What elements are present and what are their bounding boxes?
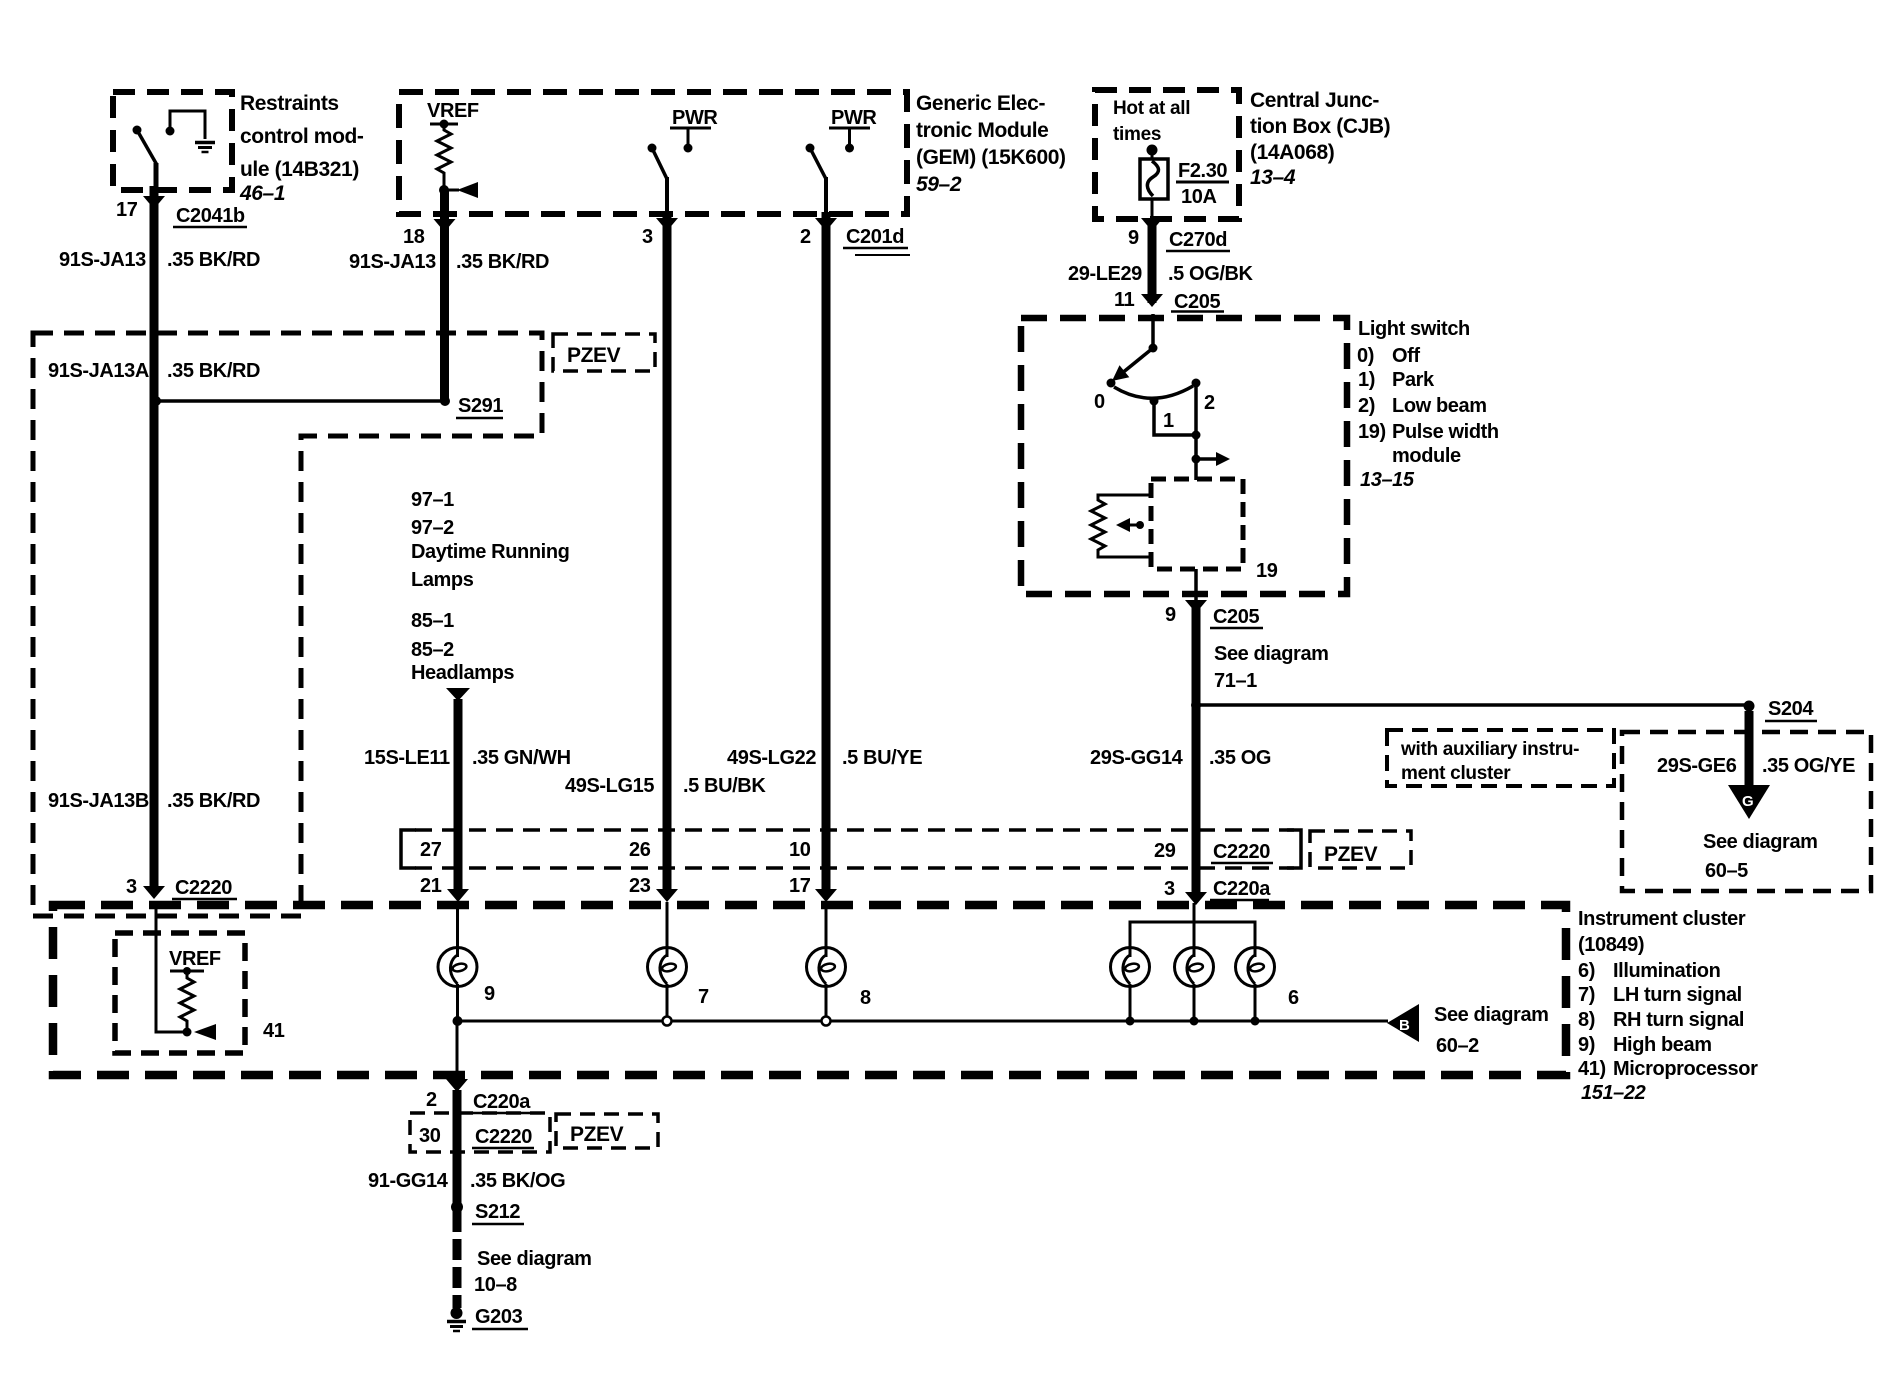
svg-text:26: 26 [629,839,651,861]
band pin numbers 27 26 10 29 [420,839,1176,862]
instrument cluster legend [1578,908,1758,1104]
see diagram 60-5 box [1622,732,1871,891]
svg-text:18: 18 [403,226,425,248]
svg-text:27: 27 [420,839,442,861]
svg-text:85–2: 85–2 [411,639,454,661]
GEM module name label [916,92,1066,196]
svg-text:Lamps: Lamps [411,569,474,591]
ground G203 label [472,1306,528,1329]
wire 15S-LE11 (vertical) [454,699,463,889]
pulse width module box 19 [1151,479,1243,569]
connector arrow at GEM pin 2 [815,218,837,231]
svg-text:17: 17 [116,199,138,221]
svg-text:Daytime Running: Daytime Running [411,541,569,563]
restraints control module (14B321) box [113,92,232,190]
fuse value label F2.30 / 10A [1176,160,1229,208]
bus junction node at lamp 8 [822,1017,831,1026]
svg-text:13–15: 13–15 [1360,469,1415,491]
VREF resistor (GEM) [430,120,458,192]
svg-text:2: 2 [1204,392,1215,414]
svg-text:module: module [1392,445,1461,467]
svg-text:(GEM) (15K600): (GEM) (15K600) [916,146,1066,169]
svg-text:91-GG14: 91-GG14 [368,1170,449,1192]
svg-text:Microprocessor: Microprocessor [1613,1058,1758,1080]
switch inside restraints module [133,126,158,190]
wire label 49S-LG15 .5 BU/BK [565,775,766,797]
svg-text:B: B [1399,1017,1410,1034]
ground G203 symbol [447,1307,466,1331]
contact 0 [1107,379,1116,388]
svg-text:See diagram: See diagram [477,1248,592,1270]
see diagram G arrow [1728,785,1770,819]
svg-text:3: 3 [126,876,137,898]
svg-text:Generic Elec-: Generic Elec- [916,92,1045,115]
wire label 91-GG14 .35 BK/OG [368,1170,565,1192]
svg-text:0): 0) [1357,345,1374,367]
PZEV variant box (band) [1310,831,1411,868]
svg-text:F2.30: F2.30 [1178,160,1227,182]
svg-text:.35 BK/RD: .35 BK/RD [167,249,260,271]
svg-text:See diagram: See diagram [1703,831,1818,853]
splice S212 node [451,1201,463,1213]
svg-text:C205: C205 [1213,606,1259,628]
svg-text:tion Box (CJB): tion Box (CJB) [1250,115,1390,138]
connector arrow at C205 top [1141,294,1163,307]
contact position arc [1114,386,1193,398]
svg-text:C205: C205 [1174,291,1220,313]
svg-text:C220a: C220a [1213,878,1271,900]
svg-text:PZEV: PZEV [570,1123,624,1146]
bus junction node at lamp 9 [453,1016,463,1026]
internal wiper arrow at VREF output [444,182,478,198]
svg-text:C220a: C220a [473,1091,531,1113]
svg-text:PZEV: PZEV [1324,843,1378,866]
connector C220a label (bottom) [471,1091,536,1113]
lamp feed wire pin 23 [666,902,669,957]
svg-text:1: 1 [1163,410,1174,432]
connector arrow at C205 bottom [1185,600,1207,613]
wire from pulse width module to C205 [1194,569,1198,602]
wire label 29S-GE6 .35 OG/YE [1657,755,1855,777]
wire to G203 (dashed) [453,1211,462,1308]
illumination lamps to bus wires [1130,984,1255,1021]
connector C201d label [843,226,910,255]
illumination lamp C [1236,948,1275,987]
svg-text:.35 GN/WH: .35 GN/WH [472,747,571,769]
svg-text:15S-LE11: 15S-LE11 [364,747,450,769]
svg-text:71–1: 71–1 [1214,670,1257,692]
wire 91-GG14 upper segment [453,1090,462,1207]
fuse F2.30 10A [1140,145,1168,221]
illumination lamp A [1111,948,1150,987]
svg-text:6): 6) [1578,960,1595,982]
svg-text:.5 BU/YE: .5 BU/YE [842,747,922,769]
lower pin numbers 21 23 17 3 [420,875,1175,900]
hot at all times label [1113,98,1190,145]
wire label 91S-JA13 .35 BK/RD (left) [59,249,260,271]
wire label 15S-LE11 .35 GN/WH [364,747,571,769]
svg-text:91S-JA13: 91S-JA13 [349,251,436,273]
svg-text:7: 7 [698,986,709,1008]
central junction box (CJB) hot at all times box [1095,90,1239,219]
connector arrow at C2041b [143,196,165,209]
svg-text:Light switch: Light switch [1358,318,1470,340]
svg-text:Hot at all: Hot at all [1113,98,1190,119]
connector arrow wire 21 [447,889,469,902]
svg-text:VREF: VREF [427,100,479,122]
svg-text:9): 9) [1578,1034,1595,1056]
svg-text:2: 2 [426,1089,437,1111]
wire from contact 2 down [1194,383,1198,480]
svg-text:G203: G203 [475,1306,523,1328]
VREF resistor (cluster) [170,967,204,1037]
svg-text:See diagram: See diagram [1434,1004,1549,1026]
svg-text:C2220: C2220 [475,1126,532,1148]
splice S212 label [472,1201,524,1224]
svg-text:2: 2 [800,226,811,248]
see diagram 60-5 note [1703,831,1818,882]
svg-text:.5 OG/BK: .5 OG/BK [1168,263,1254,285]
node junction at VREF output [439,185,449,195]
connector arrow at C270d [1141,218,1163,231]
LH turn signal lamp 7 [648,948,687,987]
connector C2220 label (left) [172,877,237,899]
svg-text:41: 41 [263,1020,285,1042]
instrument cluster (10849) box [53,905,1566,1075]
see diagram 71-1 note [1214,643,1329,692]
svg-text:30: 30 [419,1125,441,1147]
connector C205 label (top) [1171,291,1224,313]
wire label 91S-JA13B .35 BK/RD [48,790,260,812]
connector C205 label (bottom) [1210,606,1263,628]
svg-text:See diagram: See diagram [1214,643,1329,665]
wire label 49S-LG22 .5 BU/YE [727,747,922,769]
svg-text:29-LE29: 29-LE29 [1068,263,1142,285]
svg-text:times: times [1113,124,1161,145]
svg-text:(14A068): (14A068) [1250,141,1334,164]
wire label 91S-JA13A .35 BK/RD [48,360,260,382]
svg-text:8): 8) [1578,1009,1595,1031]
svg-text:6: 6 [1288,987,1299,1009]
ground symbol inside restraints module [195,143,215,153]
svg-text:S291: S291 [458,395,503,417]
svg-text:VREF: VREF [169,948,221,970]
svg-text:S212: S212 [475,1201,520,1223]
svg-text:.35 BK/RD: .35 BK/RD [456,251,549,273]
wire label 29S-GG14 .35 OG [1090,747,1271,769]
svg-text:LH turn signal: LH turn signal [1613,984,1742,1006]
svg-text:41): 41) [1578,1058,1606,1080]
light switch legend [1357,318,1499,491]
wire label 29-LE29 .5 OG/BK [1068,263,1254,285]
svg-text:PWR: PWR [831,107,877,129]
connector C2041b label [173,205,247,227]
svg-text:19): 19) [1358,421,1386,443]
splice S291 label [456,395,503,418]
svg-text:0: 0 [1094,391,1105,413]
svg-text:85–1: 85–1 [411,610,454,632]
connector arrow at GEM pin 18 [434,219,456,232]
svg-text:1): 1) [1358,369,1375,391]
connector arrow wire 23 [656,889,678,902]
svg-text:7): 7) [1578,984,1595,1006]
internal bracket wire in restraints module [166,111,206,139]
wire into light switch pivot [1151,314,1155,348]
svg-text:C2220: C2220 [175,877,232,899]
svg-text:C201d: C201d [846,226,904,248]
PZEV variant box (bottom) [556,1114,658,1148]
PWR rail symbol (pin 3) [670,128,711,153]
connector C2220 label (bottom) [472,1126,534,1148]
svg-text:9: 9 [484,983,495,1005]
svg-text:.5 BU/BK: .5 BU/BK [683,775,766,797]
svg-text:S204: S204 [1768,698,1814,720]
lamp feed wire pin 17 [825,902,828,957]
svg-text:97–1: 97–1 [411,489,454,511]
svg-text:23: 23 [629,875,651,897]
svg-text:3: 3 [642,226,653,248]
restraints module name label [239,92,364,205]
svg-text:29: 29 [1154,840,1176,862]
svg-text:tronic Module: tronic Module [916,119,1048,142]
svg-text:9: 9 [1165,604,1176,626]
svg-text:19: 19 [1256,560,1278,582]
PZEV variant box (top) [553,334,655,371]
dashed harness-variant outline (left region) [33,333,542,916]
wire from pin 3 into cluster VREF [156,903,187,1032]
svg-text:control mod-: control mod- [240,125,364,148]
connector C2220 label (band) [1211,841,1273,863]
wire to splice S204 [1196,703,1749,707]
connector C270d label [1166,229,1230,251]
switch blade (GEM pin 3) [648,144,668,214]
svg-text:3: 3 [1164,878,1175,900]
contact 2 [1192,379,1201,388]
svg-text:9: 9 [1128,227,1139,249]
band right bracket [1287,830,1301,868]
svg-text:49S-LG22: 49S-LG22 [727,747,816,769]
connector C2220 box (pin 30) [410,1113,550,1152]
svg-text:Low beam: Low beam [1392,395,1487,417]
switch blade (GEM pin 2) [806,144,827,214]
svg-text:C2041b: C2041b [176,205,245,227]
svg-text:2): 2) [1358,395,1375,417]
node junction to S204 [1191,700,1201,710]
rheostat resistor of pulse width module [1091,495,1151,557]
svg-text:PWR: PWR [672,107,718,129]
generic electronic module (GEM) box [399,92,907,214]
PWR rail symbol (pin 2) [829,128,870,153]
svg-text:PZEV: PZEV [567,344,621,367]
svg-text:49S-LG15: 49S-LG15 [565,775,654,797]
connector arrow at GEM pin 3 [656,218,678,231]
contact position labels 0 1 2 [1094,391,1215,432]
lamp 7 to bus wire [666,984,669,1021]
wire 29-LE29 from fuse [1148,219,1157,303]
svg-text:with auxiliary instru-: with auxiliary instru- [1400,739,1579,760]
wire 49S-LG15 from GEM pin 3 [663,212,672,889]
svg-text:60–5: 60–5 [1705,860,1748,882]
svg-text:151–22: 151–22 [1581,1082,1646,1104]
svg-text:97–2: 97–2 [411,517,454,539]
contact 1 [1150,397,1159,406]
splice S291 wire [151,396,450,406]
rheostat wiper arrow [1116,518,1144,532]
svg-text:10A: 10A [1181,186,1217,208]
svg-text:91S-JA13B: 91S-JA13B [48,790,149,812]
wire label 91S-JA13 .35 BK/RD (GEM) [349,251,549,273]
svg-text:Off: Off [1392,345,1420,367]
svg-text:Park: Park [1392,369,1435,391]
svg-text:Restraints: Restraints [240,92,339,115]
svg-text:.35 BK/RD: .35 BK/RD [167,790,260,812]
svg-text:(10849): (10849) [1578,934,1644,956]
band left bracket [401,830,416,868]
connector arrow wire 17 [815,889,837,902]
connector arrow at C220a bottom [446,1079,468,1092]
bus junction nodes at illumination lamps [1126,1017,1260,1026]
arrow into headlamp feed wire [446,688,470,701]
wire 91S-JA13 (left, vertical) [150,186,159,886]
svg-text:G: G [1742,793,1754,810]
svg-text:Headlamps: Headlamps [411,662,514,684]
svg-text:91S-JA13A: 91S-JA13A [48,360,149,382]
svg-text:59–2: 59–2 [916,173,962,196]
svg-text:.35 OG: .35 OG [1209,747,1271,769]
bus to C220a wire [456,1021,459,1079]
svg-text:Instrument cluster: Instrument cluster [1578,908,1746,930]
destination note daytime running lamps [411,489,569,591]
svg-text:60–2: 60–2 [1436,1035,1479,1057]
VREF box inside cluster [115,933,245,1053]
svg-text:11: 11 [1114,289,1135,311]
CJB name label [1250,89,1390,189]
wire 91S-JA13 from GEM pin 18 [440,190,449,401]
see diagram 10-8 note [474,1248,592,1296]
svg-text:10–8: 10–8 [474,1274,517,1296]
svg-text:Pulse width: Pulse width [1392,421,1499,443]
svg-text:Illumination: Illumination [1613,960,1720,982]
illumination lamp B [1175,948,1214,987]
connector arrow at C2220 pin 3 [143,886,165,899]
node at contact join [1192,431,1201,440]
svg-text:10: 10 [789,839,811,861]
connector C220a label (band) [1210,878,1271,900]
svg-text:C2220: C2220 [1213,841,1270,863]
common return bus wire [457,1020,1388,1023]
see diagram 60-2 note [1434,1004,1549,1057]
in-line connector C2220 band top line [415,828,1294,832]
splice S204 label [1765,698,1817,721]
destination note headlamps [411,610,514,684]
lamp feed wire pin 21 [456,902,459,957]
in-line connector C2220 band bottom line [415,866,1294,870]
lamp 8 to bus wire [825,984,828,1021]
node with output arrow [1192,452,1231,466]
svg-text:.35 BK/OG: .35 BK/OG [470,1170,565,1192]
connector arrow wire 3 (right) [1185,892,1207,905]
wire 29S-GE6 down from S204 [1745,711,1754,786]
wire from contact 1 [1154,401,1196,435]
svg-text:High beam: High beam [1613,1034,1712,1056]
RH turn signal lamp 8 [807,948,846,987]
svg-text:ule (14B321): ule (14B321) [240,158,359,181]
svg-text:RH turn signal: RH turn signal [1613,1009,1744,1031]
bus junction node at lamp 7 [663,1017,672,1026]
switch blade with arrowhead [1112,348,1153,381]
svg-text:21: 21 [420,875,442,897]
svg-text:29S-GG14: 29S-GG14 [1090,747,1184,769]
illumination lamp group feed [1130,903,1255,957]
high beam lamp 9 [438,948,477,987]
with auxiliary instrument cluster box [1387,730,1614,786]
svg-text:ment cluster: ment cluster [1401,763,1511,784]
svg-text:C270d: C270d [1169,229,1227,251]
light switch box [1021,318,1347,594]
svg-text:46–1: 46–1 [239,182,285,205]
lamp 9 to bus wire [456,984,459,1021]
wire 49S-LG22 from GEM pin 2 [822,212,831,889]
switch pivot node [1149,344,1158,353]
svg-text:.35 OG/YE: .35 OG/YE [1762,755,1855,777]
svg-text:29S-GE6: 29S-GE6 [1657,755,1737,777]
wire 29S-GG14 lower segment [1192,601,1201,894]
svg-text:8: 8 [860,987,871,1009]
svg-text:13–4: 13–4 [1250,166,1296,189]
svg-text:91S-JA13: 91S-JA13 [59,249,146,271]
see diagram B arrow [1387,1004,1419,1042]
internal wiper arrow (cluster VREF) [194,1024,216,1040]
svg-text:17: 17 [789,875,811,897]
splice S204 node [1744,701,1755,712]
svg-text:.35 BK/RD: .35 BK/RD [167,360,260,382]
svg-text:Central Junc-: Central Junc- [1250,89,1379,112]
